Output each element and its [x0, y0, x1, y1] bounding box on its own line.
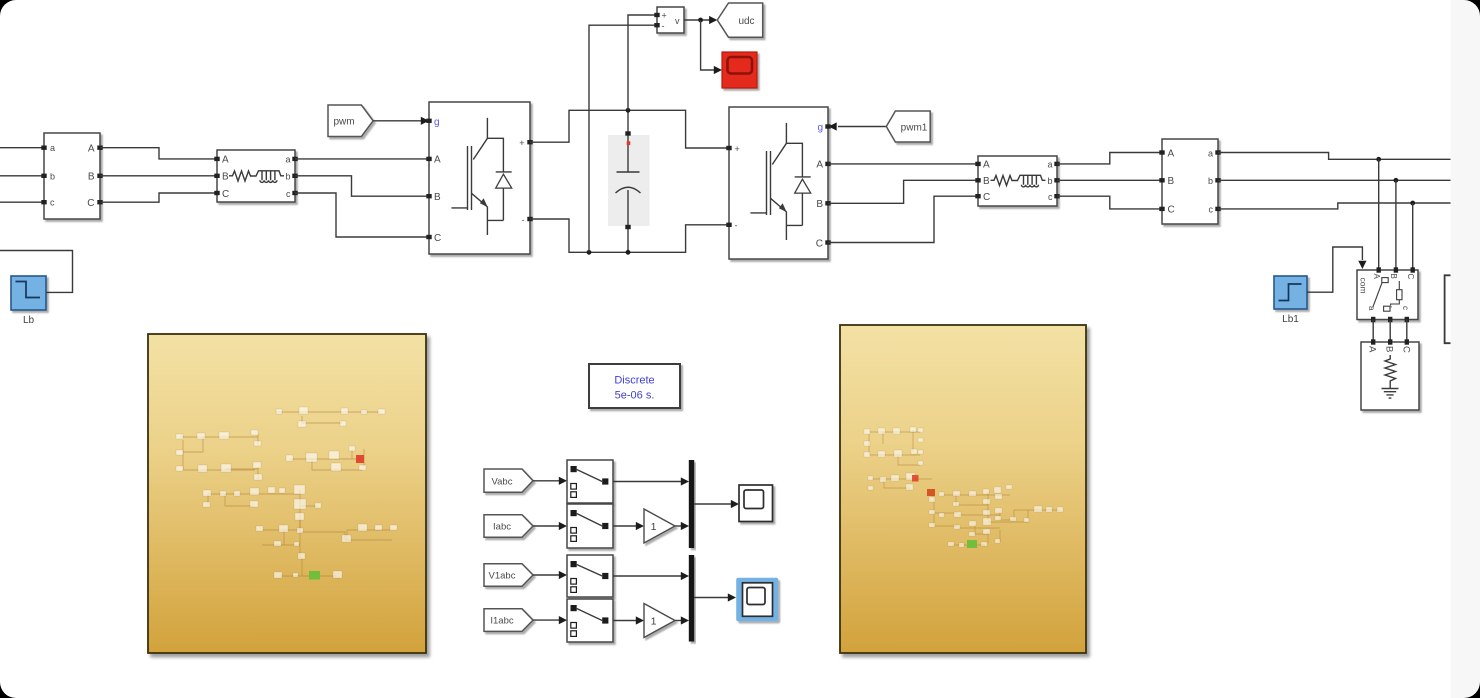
panel P2 red block 1 — [912, 475, 919, 482]
From tag pwm — [328, 105, 373, 137]
wire Gain2 to Mux2 — [675, 620, 681, 622]
junction bus b — [1394, 178, 1399, 183]
From tag I1abc — [484, 609, 533, 632]
svg-text:a: a — [50, 143, 55, 153]
svg-text:C: C — [434, 233, 441, 244]
svg-text:a: a — [1208, 148, 1213, 158]
wire B1.A to Z1.A — [100, 148, 215, 159]
wire SW1 to Mux1 — [613, 481, 681, 483]
wire B1.B to Z1.B — [100, 175, 215, 177]
svg-text:C: C — [983, 192, 990, 203]
svg-text:g: g — [817, 123, 823, 134]
junction bus a — [1376, 157, 1381, 162]
Goto tag udc — [717, 3, 762, 37]
svg-text:udc: udc — [738, 16, 754, 27]
svg-text:c: c — [286, 189, 291, 199]
wire Z1.c to U1.C — [295, 193, 427, 237]
three-phase load block LOAD — [1361, 339, 1419, 410]
svg-text:B: B — [1168, 176, 1175, 187]
From tag pwm1 — [886, 111, 930, 142]
svg-text:g: g — [434, 117, 440, 128]
svg-text:+: + — [662, 11, 667, 21]
svg-text:pwm1: pwm1 — [901, 123, 928, 134]
wire Z1.b to U1.B — [295, 176, 427, 196]
wire U2.A to Z2.A — [828, 163, 976, 165]
svg-text:C: C — [222, 189, 229, 200]
svg-text:B: B — [1384, 346, 1395, 352]
wire breaker a to load — [1372, 320, 1374, 343]
capacitor C1 — [616, 110, 641, 252]
svg-text:Lb1: Lb1 — [1282, 314, 1299, 325]
wire Mux1 to Scope1 — [694, 503, 731, 505]
manual switch SW1 — [567, 460, 613, 503]
scope Scope2 — [743, 583, 773, 617]
subsystem panel P1 — [148, 334, 426, 653]
svg-text:b: b — [1047, 176, 1052, 186]
gain block Gain1 — [644, 509, 675, 543]
wire drop c to breaker — [1412, 203, 1414, 268]
svg-text:B: B — [88, 172, 95, 183]
svg-text:b: b — [1208, 176, 1213, 186]
wire breaker b to load — [1389, 320, 1391, 343]
junction DC top bus / cap — [626, 108, 631, 113]
svg-text:C: C — [87, 198, 94, 209]
svg-text:-: - — [662, 21, 665, 31]
panel P1 green block — [309, 571, 320, 580]
svg-text:a: a — [285, 155, 290, 165]
svg-text:A: A — [88, 144, 95, 155]
manual switch SW2 — [567, 504, 613, 548]
svg-text:1: 1 — [651, 615, 657, 627]
wire drop a to breaker — [1378, 159, 1380, 267]
wire SW3 to Mux2 — [613, 575, 681, 577]
wire U1.+ to DC top bus — [530, 110, 727, 148]
wire drop b to breaker — [1395, 180, 1397, 267]
panel P2 red block 2 — [927, 489, 935, 496]
From tag Vabc — [484, 469, 533, 492]
svg-text:A: A — [1168, 148, 1175, 159]
svg-text:C: C — [816, 238, 823, 249]
wire V1abc to switch — [533, 574, 559, 576]
svg-text:c: c — [1209, 205, 1214, 215]
wire Vm minus lead — [589, 25, 657, 252]
svg-text:b: b — [285, 172, 290, 182]
wire Lb1 to breaker com — [1307, 247, 1362, 292]
wire Vm plus lead — [628, 15, 657, 110]
svg-text:A: A — [1372, 274, 1381, 280]
wire I1abc to switch — [533, 619, 559, 621]
capacitor C1 selection highlight — [608, 135, 650, 226]
wire breaker c to load — [1406, 320, 1408, 343]
svg-text:B: B — [1389, 274, 1398, 279]
svg-text:B: B — [983, 176, 990, 187]
panel P2 green block — [967, 540, 977, 548]
svg-text:B: B — [434, 192, 441, 203]
svg-text:A: A — [222, 155, 229, 166]
subsystem panel P2 — [840, 325, 1086, 653]
junction bus c — [1410, 201, 1415, 206]
svg-text:C: C — [1168, 205, 1175, 216]
wire pwm1 to U2.g — [838, 126, 886, 128]
svg-text:Discrete: Discrete — [614, 375, 654, 387]
wire Gain1 to Mux1 — [675, 525, 681, 527]
svg-text:V1abc: V1abc — [489, 571, 516, 582]
wire Iabc to switch — [533, 525, 559, 527]
wire phase b into B1 — [0, 175, 42, 177]
manual switch SW4 — [567, 599, 613, 642]
svg-text:A: A — [983, 160, 990, 171]
svg-text:-: - — [735, 221, 738, 231]
wire Z2.c to B2.C — [1057, 196, 1160, 209]
svg-text:c: c — [50, 198, 55, 208]
powergui Discrete block — [589, 364, 680, 408]
wire B1.C to Z1.C — [100, 193, 215, 202]
svg-text:Iabc: Iabc — [493, 522, 511, 533]
panel P2 faint circuit content — [869, 430, 1060, 545]
panel P1 faint circuit content — [180, 412, 392, 576]
voltage measurement Vm — [654, 7, 684, 33]
canvas right gutter strip — [1451, 0, 1480, 698]
wire bus phase c — [1218, 203, 1451, 209]
svg-text:I1abc: I1abc — [490, 616, 513, 627]
svg-text:com: com — [1359, 278, 1369, 294]
svg-text:A: A — [434, 155, 441, 166]
wire pwm to U1.g — [373, 120, 421, 122]
mux Mux1 — [689, 460, 694, 548]
svg-text:C: C — [1401, 346, 1412, 353]
svg-text:b: b — [50, 171, 55, 181]
wire Mux2 to Scope2 — [694, 597, 728, 599]
wire Z2.a to B2.A — [1057, 153, 1160, 164]
wire bus phase a — [1218, 153, 1451, 160]
three-phase block B1 — [41, 133, 102, 219]
wire SW4 to Gain2 — [613, 620, 636, 622]
svg-text:-: - — [522, 215, 525, 225]
From tag V1abc — [484, 564, 533, 587]
wire Vm output to DC scope — [701, 20, 714, 70]
svg-text:+: + — [735, 144, 740, 154]
svg-text:v: v — [675, 16, 680, 26]
wire Z1.a to U1.A — [295, 158, 427, 160]
IGBT universal bridge U1 — [426, 102, 532, 254]
three-phase breaker BRK — [1357, 267, 1418, 322]
wire bus phase b — [1218, 179, 1451, 181]
wire phase a into B1 — [0, 147, 42, 149]
From tag Iabc — [484, 515, 533, 538]
step block Lb — [11, 276, 46, 310]
svg-text:B: B — [222, 172, 229, 183]
wire Vabc to switch — [533, 480, 559, 482]
svg-text:+: + — [519, 138, 524, 148]
wire U2.B to Z2.B — [828, 180, 976, 203]
wire Z2.b to B2.B — [1057, 179, 1160, 181]
wire Lb output — [0, 251, 73, 293]
wire U2.C to Z2.C — [828, 196, 976, 242]
wire phase c into B1 — [0, 201, 42, 203]
wire Vm.v to udc tag — [684, 19, 710, 21]
wire U1.- to DC bottom bus — [530, 219, 727, 252]
three-phase block B2 — [1159, 139, 1220, 224]
step block Lb1 — [1274, 276, 1307, 309]
svg-text:c: c — [1401, 306, 1410, 310]
svg-text:pwm: pwm — [333, 117, 354, 128]
svg-text:1: 1 — [651, 521, 657, 533]
svg-text:Lb: Lb — [23, 315, 35, 326]
svg-text:a: a — [1367, 306, 1376, 311]
svg-text:c: c — [1048, 192, 1053, 202]
junction DC bottom bus / cap — [626, 250, 631, 255]
partial block at canvas edge — [1445, 275, 1451, 343]
svg-text:Vabc: Vabc — [492, 476, 513, 487]
svg-text:B: B — [816, 199, 823, 210]
svg-text:5e-06 s.: 5e-06 s. — [615, 390, 655, 402]
svg-text:C: C — [1406, 274, 1415, 280]
IGBT universal bridge U2 — [726, 107, 830, 259]
gain block Gain2 — [644, 604, 675, 638]
svg-text:A: A — [1367, 346, 1378, 353]
svg-text:A: A — [816, 160, 823, 171]
scope Scope2 selection highlight — [736, 578, 778, 622]
junction DC bottom bus / Vm minus — [587, 250, 592, 255]
svg-text:a: a — [1047, 160, 1052, 170]
RL branch block Z1 — [214, 150, 297, 202]
junction Vm output — [698, 18, 703, 23]
panel P1 red block — [356, 455, 364, 463]
mux Mux2 — [689, 555, 694, 642]
RL branch block Z2 — [975, 156, 1059, 206]
scope Scope1 — [739, 485, 773, 522]
manual switch SW3 — [567, 555, 613, 597]
scope Vdc (red) — [722, 52, 757, 88]
wire SW2 to Gain1 — [613, 525, 636, 527]
